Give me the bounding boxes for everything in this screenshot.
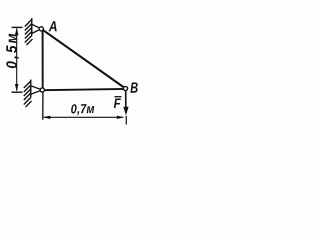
pin support A (triangle) [32, 24, 42, 33]
node B (hinge circle) [123, 86, 127, 90]
wall lower (at support C) [24, 80, 32, 108]
member AC (vertical bar from A down to C) [42, 29, 44, 90]
dimension line 0.5 m (vertical) [16, 29, 18, 91]
dimension arrowhead right [117, 116, 125, 119]
vector overbar of F [115, 96, 122, 98]
label B [130, 79, 139, 96]
dimension line 0.7 m (horizontal) [44, 116, 123, 118]
extension line below C for dimension [42, 91, 44, 120]
force F arrow shaft (downward at B) [125, 91, 127, 109]
wall upper (at support A) [25, 18, 33, 45]
dimension tick bottom [12, 91, 23, 93]
force F arrowhead [123, 107, 128, 116]
svg-text:0,5м: 0,5м [4, 31, 21, 69]
extension line below B for dimension [125, 116, 127, 125]
svg-text:0,7м: 0,7м [71, 101, 95, 117]
svg-text:F: F [114, 96, 122, 111]
pin A (hinge circle) [39, 27, 43, 31]
pin support C (triangle) [31, 86, 43, 94]
label 0,7м [71, 101, 95, 117]
label F [114, 96, 122, 111]
svg-text:B: B [130, 79, 139, 96]
svg-text:A: A [48, 18, 58, 35]
pin C (hinge circle) [40, 88, 44, 92]
dimension arrowhead left [43, 116, 51, 119]
member CB (horizontal bar to B) [42, 89, 125, 90]
dimension tick top [12, 26, 23, 28]
label 0,5м (rotated) [4, 31, 21, 69]
dimension arrowhead down [15, 84, 19, 92]
label A [48, 18, 58, 35]
dimension arrowhead up [15, 28, 19, 36]
member AB (diagonal) [41, 29, 125, 89]
